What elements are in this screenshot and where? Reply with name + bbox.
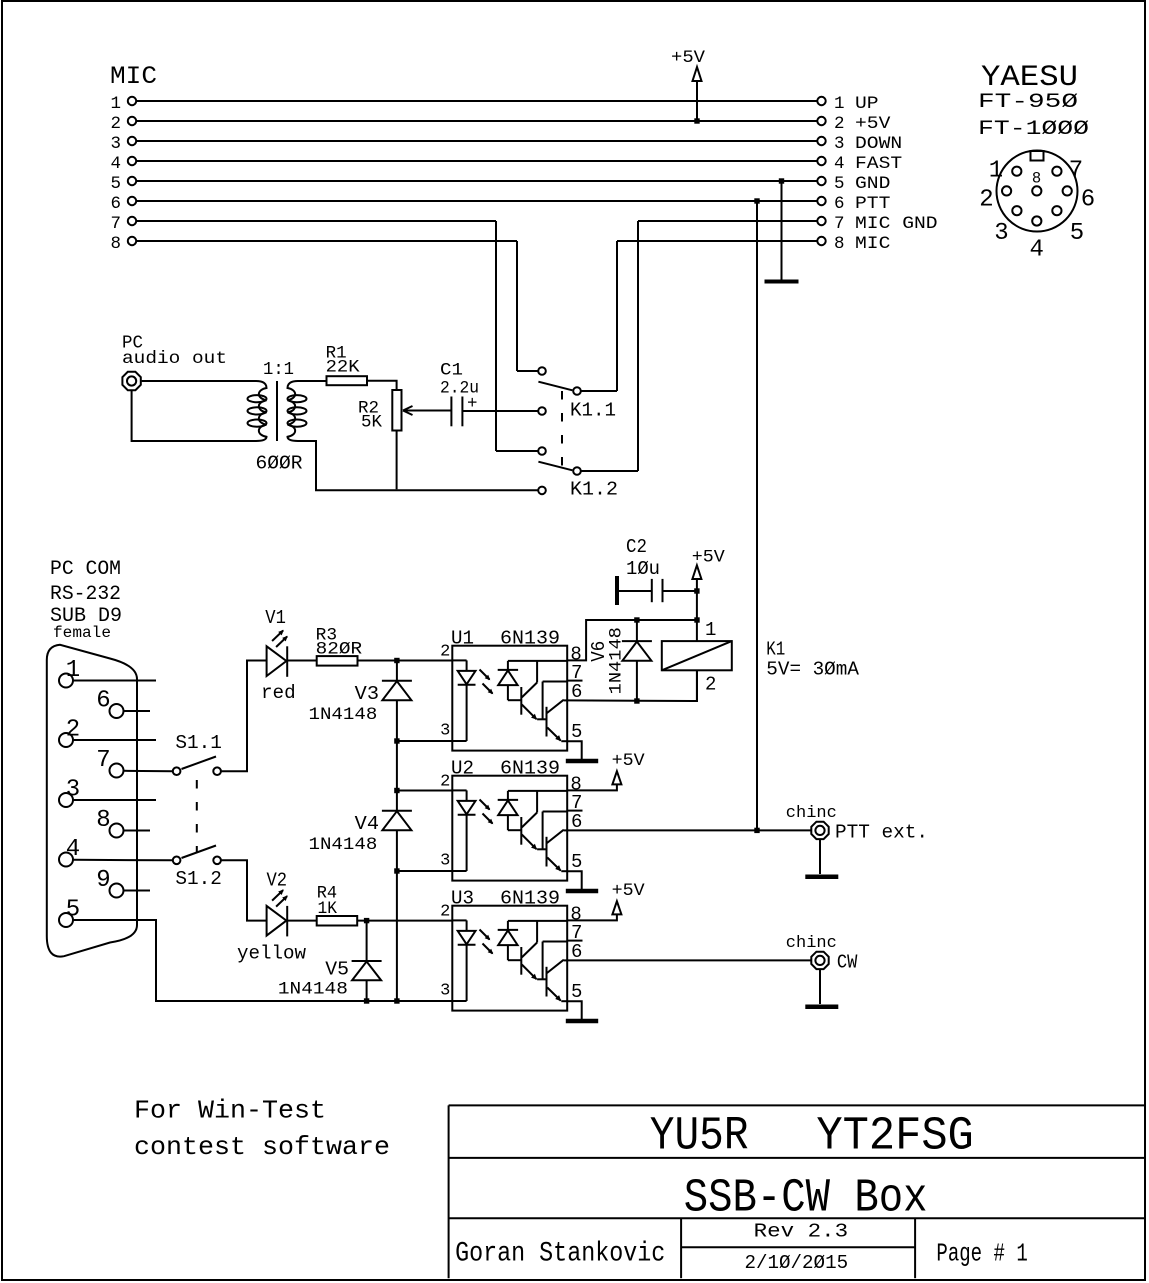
wire MIC pin 7 bbox=[136, 220, 496, 222]
svg-text:MIC: MIC bbox=[110, 62, 157, 91]
wire MIC7 down to K1.2 bbox=[495, 221, 497, 451]
svg-text:6N139: 6N139 bbox=[500, 888, 560, 910]
svg-text:3: 3 bbox=[440, 722, 450, 741]
wire S1.1 to V1 bbox=[221, 661, 267, 772]
junction C2/+5V bbox=[694, 588, 699, 593]
junction R3/V3 bbox=[394, 658, 399, 663]
+5V symbol top bbox=[671, 48, 706, 121]
junction bottom rail x367 bbox=[364, 998, 369, 1003]
wire MIC pin 1 bbox=[136, 100, 817, 102]
optocoupler U2 6N139 bbox=[440, 758, 582, 881]
+5V symbol U2 bbox=[567, 751, 645, 791]
junction U2 pin2 bbox=[394, 788, 399, 793]
svg-text:4: 4 bbox=[110, 154, 121, 174]
DIN pin 8 label bbox=[1032, 170, 1041, 188]
title SSB-CW Box bbox=[684, 1172, 928, 1225]
U3 pin5 to ground bbox=[567, 1001, 582, 1019]
DIN pin 2 label bbox=[979, 187, 993, 214]
Rev 2.3 bbox=[754, 1220, 849, 1242]
wire K1.1 to radio MIC bbox=[581, 390, 617, 392]
svg-text:1: 1 bbox=[110, 94, 121, 114]
MIC pin 2 bbox=[110, 114, 136, 134]
wire to U2 pin2 bbox=[397, 741, 452, 791]
transformer 1:1 label bbox=[263, 360, 294, 380]
svg-text:8: 8 bbox=[96, 807, 110, 834]
svg-text:82ØR: 82ØR bbox=[316, 639, 363, 659]
radio pin 3 DOWN bbox=[817, 134, 902, 154]
wire U2 pin6 to PTT ext bbox=[567, 829, 810, 831]
svg-text:MIC: MIC bbox=[855, 234, 890, 254]
svg-text:CW: CW bbox=[837, 952, 858, 974]
DIN pin 3 label bbox=[994, 220, 1008, 247]
svg-text:6: 6 bbox=[110, 194, 121, 214]
FT-1000 label bbox=[978, 118, 1089, 141]
DB9 stub pin 6 bbox=[124, 710, 151, 712]
audio connector J2 bbox=[122, 372, 140, 390]
wire R2 bottom bbox=[396, 431, 398, 490]
PC COM label bbox=[50, 558, 122, 642]
switch S1.2 bbox=[173, 846, 222, 891]
switch S1.1 bbox=[173, 732, 222, 775]
U2 pin7 stub bbox=[567, 810, 582, 812]
U1 transistor T1 bbox=[521, 661, 546, 720]
wire down to bottom rail bbox=[396, 871, 398, 1001]
DIN pin 5 bbox=[1052, 206, 1061, 215]
LED V1 red bbox=[261, 607, 296, 704]
junction R4/V5 bbox=[364, 918, 369, 923]
svg-text:V4: V4 bbox=[355, 813, 379, 835]
wire transformer to R1 bbox=[298, 380, 327, 382]
svg-text:8: 8 bbox=[834, 234, 845, 254]
DIN pin 1 label bbox=[989, 157, 1003, 184]
svg-text:C1: C1 bbox=[440, 361, 463, 381]
svg-text:FT-1ØØØ: FT-1ØØØ bbox=[978, 118, 1089, 141]
DB9 wire pin 7 to S1.1 bbox=[124, 770, 173, 772]
optocoupler U1 6N139 bbox=[440, 628, 582, 751]
U2 transistor T2 bbox=[543, 812, 568, 872]
wire MIC pin 6 bbox=[136, 200, 817, 202]
DIN pin 6 label bbox=[1081, 187, 1095, 214]
DB9 pin 4 bbox=[59, 836, 80, 867]
DIN pin 1 bbox=[1012, 167, 1021, 176]
+5V symbol U3 bbox=[567, 881, 645, 921]
wire MIC pin 2 bbox=[136, 120, 817, 122]
DB9 pin 9 bbox=[96, 867, 123, 898]
junction bottom rail x397 bbox=[394, 998, 399, 1003]
svg-text:3: 3 bbox=[110, 134, 121, 154]
date 2/10/2015 bbox=[745, 1252, 849, 1274]
svg-text:8: 8 bbox=[1032, 170, 1041, 188]
svg-text:2: 2 bbox=[705, 674, 716, 696]
junction U1 pin3 bbox=[394, 738, 399, 743]
MIC pin 1 bbox=[110, 94, 136, 114]
U1 photodiode bbox=[498, 661, 568, 700]
svg-text:5: 5 bbox=[1070, 220, 1084, 247]
ground symbol U3 pin5 bbox=[566, 1019, 598, 1024]
ground symbol CW bbox=[805, 1004, 838, 1009]
svg-text:S1.2: S1.2 bbox=[175, 868, 222, 890]
DB9 stub pin 2 bbox=[73, 739, 156, 741]
svg-text:V1: V1 bbox=[265, 607, 286, 629]
DIN pin 8 bbox=[1032, 186, 1041, 195]
svg-text:1: 1 bbox=[834, 94, 845, 114]
svg-text:FT-95Ø: FT-95Ø bbox=[978, 91, 1078, 114]
radio pin 4 FAST bbox=[817, 154, 902, 174]
DB9 wire pin 4 to S1.2 bbox=[73, 859, 173, 862]
svg-text:2: 2 bbox=[979, 187, 993, 214]
FT-950 label bbox=[978, 91, 1078, 114]
svg-text:C2: C2 bbox=[626, 536, 647, 558]
svg-text:+5V: +5V bbox=[612, 881, 646, 901]
wire V2 to R4 bbox=[287, 920, 317, 922]
U3 internal LED bbox=[452, 920, 475, 1001]
svg-text:+5V: +5V bbox=[671, 48, 706, 68]
svg-text:6N139: 6N139 bbox=[500, 628, 560, 650]
wire radio MIC down to K1.1 bbox=[616, 241, 618, 391]
svg-text:3: 3 bbox=[834, 134, 845, 154]
svg-text:Page # 1: Page # 1 bbox=[936, 1239, 1027, 1269]
svg-text:K1.1: K1.1 bbox=[570, 400, 616, 422]
wire V3 to U1 pin3 bbox=[397, 700, 452, 741]
potentiometer R2 bbox=[358, 390, 451, 433]
DB9 stub pin 1 bbox=[73, 680, 156, 682]
wire radio MIC GND down to K1.2 bbox=[637, 221, 639, 471]
diode V3 1N4148 bbox=[309, 681, 412, 726]
wire MIC pin 5 bbox=[136, 180, 817, 182]
svg-text:YAESU: YAESU bbox=[981, 61, 1078, 95]
resistor R4 bbox=[317, 883, 358, 925]
svg-text:6: 6 bbox=[96, 688, 110, 715]
svg-text:PTT: PTT bbox=[855, 194, 890, 214]
U1 transistor T2 bbox=[543, 682, 568, 742]
connector chinc CW bbox=[786, 934, 858, 974]
MIC pin 3 bbox=[110, 134, 136, 154]
junction +5V on MIC pin 2 bbox=[694, 118, 699, 123]
relay coil K1 bbox=[662, 619, 732, 701]
svg-text:audio out: audio out bbox=[122, 349, 227, 369]
svg-text:chinc: chinc bbox=[786, 934, 837, 953]
ground symbol PTT ext bbox=[805, 874, 838, 879]
U3 pin7 stub bbox=[567, 940, 582, 942]
junction V6 bottom bbox=[634, 698, 639, 703]
svg-text:6ØØR: 6ØØR bbox=[256, 453, 303, 475]
svg-text:1N4148: 1N4148 bbox=[607, 627, 627, 694]
DB9 pin 5 bbox=[59, 897, 80, 928]
wire R1 to R2 bbox=[367, 381, 397, 390]
radio pin 7 MIC GND bbox=[638, 214, 938, 234]
svg-text:7: 7 bbox=[1069, 157, 1083, 184]
DIN pin 5 label bbox=[1070, 220, 1084, 247]
DIN pin 7 label bbox=[1069, 157, 1083, 184]
transformer TR1 core bbox=[276, 381, 278, 441]
DIN pin 6 bbox=[1063, 186, 1072, 195]
svg-text:2/1Ø/2Ø15: 2/1Ø/2Ø15 bbox=[745, 1252, 849, 1274]
svg-text:UP: UP bbox=[855, 94, 879, 114]
transformer TR1 secondary bbox=[288, 381, 307, 441]
wire V3 chain top bbox=[396, 661, 398, 682]
svg-text:PTT ext.: PTT ext. bbox=[835, 822, 928, 844]
capacitor C2 bbox=[617, 536, 697, 605]
mechanical link K1 dashed bbox=[561, 391, 563, 469]
wire C1 to K1.1 bbox=[462, 410, 538, 412]
svg-text:PC COM: PC COM bbox=[50, 558, 121, 581]
DB9 stub pin 9 bbox=[124, 890, 151, 892]
svg-text:V2: V2 bbox=[267, 870, 288, 892]
wire MIC pin 3 bbox=[136, 140, 817, 142]
MIC pin 5 bbox=[110, 174, 136, 194]
U2 internal LED bbox=[452, 790, 475, 871]
svg-text:DOWN: DOWN bbox=[855, 134, 902, 154]
DIN pin 7 bbox=[1052, 167, 1061, 176]
radio pin 2 +5V bbox=[817, 114, 891, 134]
svg-text:7: 7 bbox=[96, 747, 110, 774]
U2 transistor T1 bbox=[521, 791, 546, 850]
svg-text:6N139: 6N139 bbox=[500, 758, 560, 780]
title YU5R YT2FSG bbox=[650, 1111, 974, 1164]
MIC pin 6 bbox=[110, 194, 136, 214]
U2 photodiode bbox=[498, 791, 568, 830]
svg-text:6: 6 bbox=[1081, 187, 1095, 214]
U1 pin7 stub bbox=[567, 680, 582, 682]
wire MIC8 to K1.1 contact bbox=[517, 370, 538, 372]
svg-text:1:1: 1:1 bbox=[263, 360, 294, 380]
junction U2 pin3 bbox=[394, 868, 399, 873]
wire V4 top bbox=[396, 791, 398, 812]
svg-text:9: 9 bbox=[96, 867, 110, 894]
radio pin 6 PTT bbox=[817, 194, 890, 214]
svg-text:Rev 2.3: Rev 2.3 bbox=[754, 1220, 849, 1242]
svg-text:U2: U2 bbox=[451, 758, 474, 780]
PC audio out label bbox=[122, 334, 227, 370]
DIN-8 connector body bbox=[997, 151, 1078, 232]
svg-text:2: 2 bbox=[110, 114, 121, 134]
U2 pin5 to ground bbox=[567, 871, 582, 889]
ground symbol U2 pin5 bbox=[566, 889, 598, 894]
U3 photodiode bbox=[498, 921, 568, 960]
svg-text:5: 5 bbox=[571, 851, 582, 873]
wire U3 pin6 to CW bbox=[567, 959, 810, 961]
junction V6 top bbox=[634, 617, 639, 622]
transformer 600R label bbox=[256, 453, 303, 475]
wire V5 to bottom rail bbox=[366, 980, 368, 1001]
DB9 connector body bbox=[47, 645, 137, 957]
U3 transistor T1 bbox=[521, 921, 546, 980]
diode V4 1N4148 bbox=[309, 811, 412, 856]
svg-text:1: 1 bbox=[705, 619, 716, 641]
svg-text:2: 2 bbox=[440, 773, 450, 792]
+5V symbol relay bbox=[692, 548, 726, 621]
wire MIC pin 8 bbox=[136, 240, 517, 242]
svg-text:5: 5 bbox=[834, 174, 845, 194]
DB9 pin 2 bbox=[59, 717, 80, 748]
DB9 pin 3 bbox=[59, 777, 80, 808]
svg-text:1N4148: 1N4148 bbox=[278, 980, 348, 1000]
svg-text:2: 2 bbox=[440, 903, 450, 922]
svg-text:YT2FSG: YT2FSG bbox=[816, 1111, 973, 1164]
wire K1.2 to radio MIC GND bbox=[581, 470, 638, 472]
svg-text:Goran Stankovic: Goran Stankovic bbox=[455, 1239, 665, 1270]
junction GND line 5 bbox=[779, 178, 784, 183]
radio pin 1 UP bbox=[817, 94, 878, 114]
relay contact K1.2 bbox=[538, 407, 618, 500]
svg-text:4: 4 bbox=[1029, 236, 1043, 263]
DB9 stub pin 3 bbox=[73, 799, 156, 801]
junction PTT bbox=[754, 828, 759, 833]
svg-text:1K: 1K bbox=[318, 899, 338, 919]
wire S1.2 to V2 bbox=[221, 860, 267, 920]
wire transformer bottom to K1.2 bbox=[300, 441, 538, 490]
svg-text:7: 7 bbox=[834, 214, 845, 234]
svg-text:+5V: +5V bbox=[855, 114, 891, 134]
wire PTT ext to ground bbox=[819, 840, 821, 874]
resistor R3 bbox=[316, 625, 363, 665]
author Goran Stankovic bbox=[455, 1239, 665, 1270]
svg-text:5: 5 bbox=[571, 721, 582, 743]
svg-text:V5: V5 bbox=[325, 959, 349, 981]
LED V2 yellow bbox=[237, 870, 307, 965]
wire U1 pin8 to +5V rail bbox=[567, 620, 697, 660]
wire V5 top bbox=[366, 921, 368, 961]
MIC pin 7 bbox=[110, 214, 136, 234]
svg-text:red: red bbox=[261, 682, 296, 704]
wire PTT down to PTT ext net bbox=[756, 201, 758, 830]
U3 light arrows bbox=[480, 930, 494, 955]
radio pin 5 GND bbox=[817, 174, 890, 194]
svg-text:MIC GND: MIC GND bbox=[855, 214, 938, 234]
ground symbol U1 pin5 bbox=[566, 759, 598, 764]
svg-text:For Win-Test: For Win-Test bbox=[134, 1096, 326, 1126]
svg-text:S1.1: S1.1 bbox=[175, 732, 222, 754]
MIC connector label bbox=[110, 62, 157, 91]
wire GND down bbox=[781, 181, 783, 280]
DB9 stub pin 8 bbox=[124, 830, 151, 832]
radio pin 8 MIC bbox=[617, 234, 890, 254]
svg-text:3: 3 bbox=[994, 220, 1008, 247]
MIC pin 8 bbox=[110, 234, 136, 254]
svg-text:YU5R: YU5R bbox=[650, 1111, 749, 1164]
svg-text:5: 5 bbox=[110, 174, 121, 194]
wire R3 to U1 pin2 bbox=[358, 660, 453, 662]
U2 light arrows bbox=[480, 800, 494, 825]
diode V6 1N4148 bbox=[588, 620, 652, 701]
DB9 wire pin 5 bbox=[73, 920, 452, 1001]
svg-text:1: 1 bbox=[989, 157, 1003, 184]
wire CW to ground bbox=[819, 970, 821, 1004]
DIN pin 2 bbox=[1002, 186, 1011, 195]
svg-text:22K: 22K bbox=[326, 357, 361, 377]
ground symbol GND line bbox=[765, 280, 799, 284]
DB9 pin 7 bbox=[96, 747, 123, 778]
For Win-Test note bbox=[134, 1096, 390, 1163]
svg-text:5V= 3ØmA: 5V= 3ØmA bbox=[766, 659, 859, 681]
svg-text:7: 7 bbox=[110, 214, 121, 234]
svg-text:1N4148: 1N4148 bbox=[309, 705, 378, 725]
K1 label bbox=[766, 638, 859, 680]
svg-text:K1.2: K1.2 bbox=[570, 479, 618, 501]
svg-text:V3: V3 bbox=[355, 683, 379, 705]
svg-text:3: 3 bbox=[440, 852, 450, 871]
DB9 pin 1 bbox=[59, 657, 80, 688]
DB9 pin 8 bbox=[96, 807, 123, 838]
DB9 pin 6 bbox=[96, 688, 123, 719]
Page # 1 bbox=[936, 1239, 1027, 1269]
wire R4 to U3 pin2 bbox=[357, 920, 452, 922]
wire MIC7 to K1.2 contact bbox=[496, 450, 538, 452]
svg-text:RS-232: RS-232 bbox=[50, 583, 121, 606]
diode V5 1N4148 bbox=[278, 959, 382, 1000]
svg-text:8: 8 bbox=[110, 234, 121, 254]
optocoupler U3 6N139 bbox=[440, 888, 582, 1011]
U1 internal LED bbox=[452, 660, 475, 741]
svg-text:5K: 5K bbox=[361, 413, 382, 433]
capacitor C1 bbox=[440, 361, 479, 427]
svg-text:K1: K1 bbox=[766, 638, 785, 660]
svg-text:3: 3 bbox=[440, 982, 450, 1001]
wire V1 to R3 bbox=[287, 660, 317, 662]
DIN pin 4 bbox=[1032, 216, 1041, 225]
wire audio to transformer bbox=[142, 380, 256, 382]
relay contact K1.1 bbox=[538, 367, 616, 421]
svg-text:FAST: FAST bbox=[855, 154, 902, 174]
svg-text:chinc: chinc bbox=[786, 804, 837, 823]
svg-text:+5V: +5V bbox=[612, 751, 646, 771]
transformer TR1 primary bbox=[248, 381, 267, 441]
svg-text:U1: U1 bbox=[451, 628, 474, 650]
U1 pin5 to ground bbox=[567, 741, 582, 759]
resistor R1 bbox=[326, 343, 367, 385]
U3 transistor T2 bbox=[543, 942, 568, 1002]
svg-text:GND: GND bbox=[855, 174, 890, 194]
DIN pin 4 label bbox=[1029, 236, 1043, 263]
svg-text:5: 5 bbox=[571, 981, 582, 1003]
svg-text:4: 4 bbox=[834, 154, 845, 174]
svg-text:6: 6 bbox=[834, 194, 845, 214]
wire audio gnd to transformer bbox=[132, 391, 254, 441]
svg-text:contest software: contest software bbox=[134, 1132, 390, 1162]
connector chinc PTT ext bbox=[786, 804, 928, 844]
DIN pin 3 bbox=[1012, 206, 1021, 215]
svg-text:yellow: yellow bbox=[237, 943, 307, 965]
mechanical link S1 dashed bbox=[196, 780, 198, 853]
junction PTT line 6 bbox=[754, 198, 759, 203]
wire MIC8 down to K1.1 bbox=[516, 241, 518, 371]
MIC pin 4 bbox=[110, 154, 136, 174]
wire V4 to U2 pin3 bbox=[397, 830, 452, 871]
wire U1 pin6 rail bbox=[567, 670, 697, 701]
svg-text:SSB-CW Box: SSB-CW Box bbox=[684, 1172, 928, 1225]
svg-text:1Øu: 1Øu bbox=[626, 558, 660, 580]
svg-text:1N4148: 1N4148 bbox=[309, 835, 378, 855]
svg-text:2: 2 bbox=[440, 643, 450, 662]
YAESU label bbox=[981, 61, 1078, 95]
svg-text:female: female bbox=[53, 624, 111, 642]
svg-text:2: 2 bbox=[834, 114, 845, 134]
svg-text:U3: U3 bbox=[451, 888, 474, 910]
U1 light arrows bbox=[480, 670, 494, 695]
wire MIC pin 4 bbox=[136, 160, 817, 162]
junction relay top bbox=[694, 617, 699, 622]
title block frame bbox=[449, 1105, 1145, 1278]
